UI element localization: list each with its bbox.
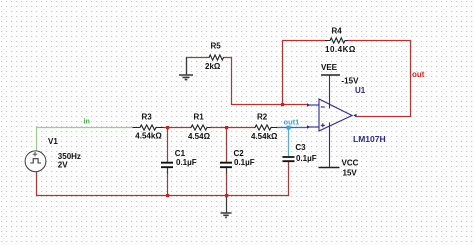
svg-text:VEE: VEE [321, 63, 338, 72]
svg-text:VCC: VCC [342, 159, 359, 168]
svg-text:15V: 15V [343, 168, 358, 177]
svg-text:2V: 2V [58, 161, 68, 170]
svg-text:C2: C2 [234, 149, 245, 158]
svg-text:4.54kΩ: 4.54kΩ [135, 131, 162, 140]
svg-text:R1: R1 [194, 113, 205, 122]
svg-text:4.54Ω: 4.54Ω [188, 132, 211, 141]
svg-text:0.1µF: 0.1µF [234, 158, 255, 167]
svg-text:2kΩ: 2kΩ [205, 62, 221, 71]
svg-text:10.4KΩ: 10.4KΩ [325, 45, 356, 54]
svg-text:0.1µF: 0.1µF [296, 154, 317, 163]
svg-text:R3: R3 [142, 113, 153, 122]
svg-text:C3: C3 [295, 143, 306, 152]
svg-text:R2: R2 [257, 113, 268, 122]
svg-text:R4: R4 [332, 26, 343, 35]
svg-text:0.1µF: 0.1µF [176, 158, 197, 167]
svg-text:R5: R5 [211, 41, 222, 50]
svg-text:in: in [84, 118, 90, 125]
svg-text:-15V: -15V [342, 76, 360, 85]
svg-text:out: out [412, 70, 425, 79]
svg-text:V1: V1 [48, 137, 58, 146]
svg-text:LM107H: LM107H [353, 134, 386, 144]
svg-text:4.54kΩ: 4.54kΩ [251, 132, 278, 141]
svg-text:out1: out1 [284, 118, 300, 127]
svg-text:C1: C1 [175, 149, 186, 158]
svg-text:U1: U1 [355, 86, 366, 95]
